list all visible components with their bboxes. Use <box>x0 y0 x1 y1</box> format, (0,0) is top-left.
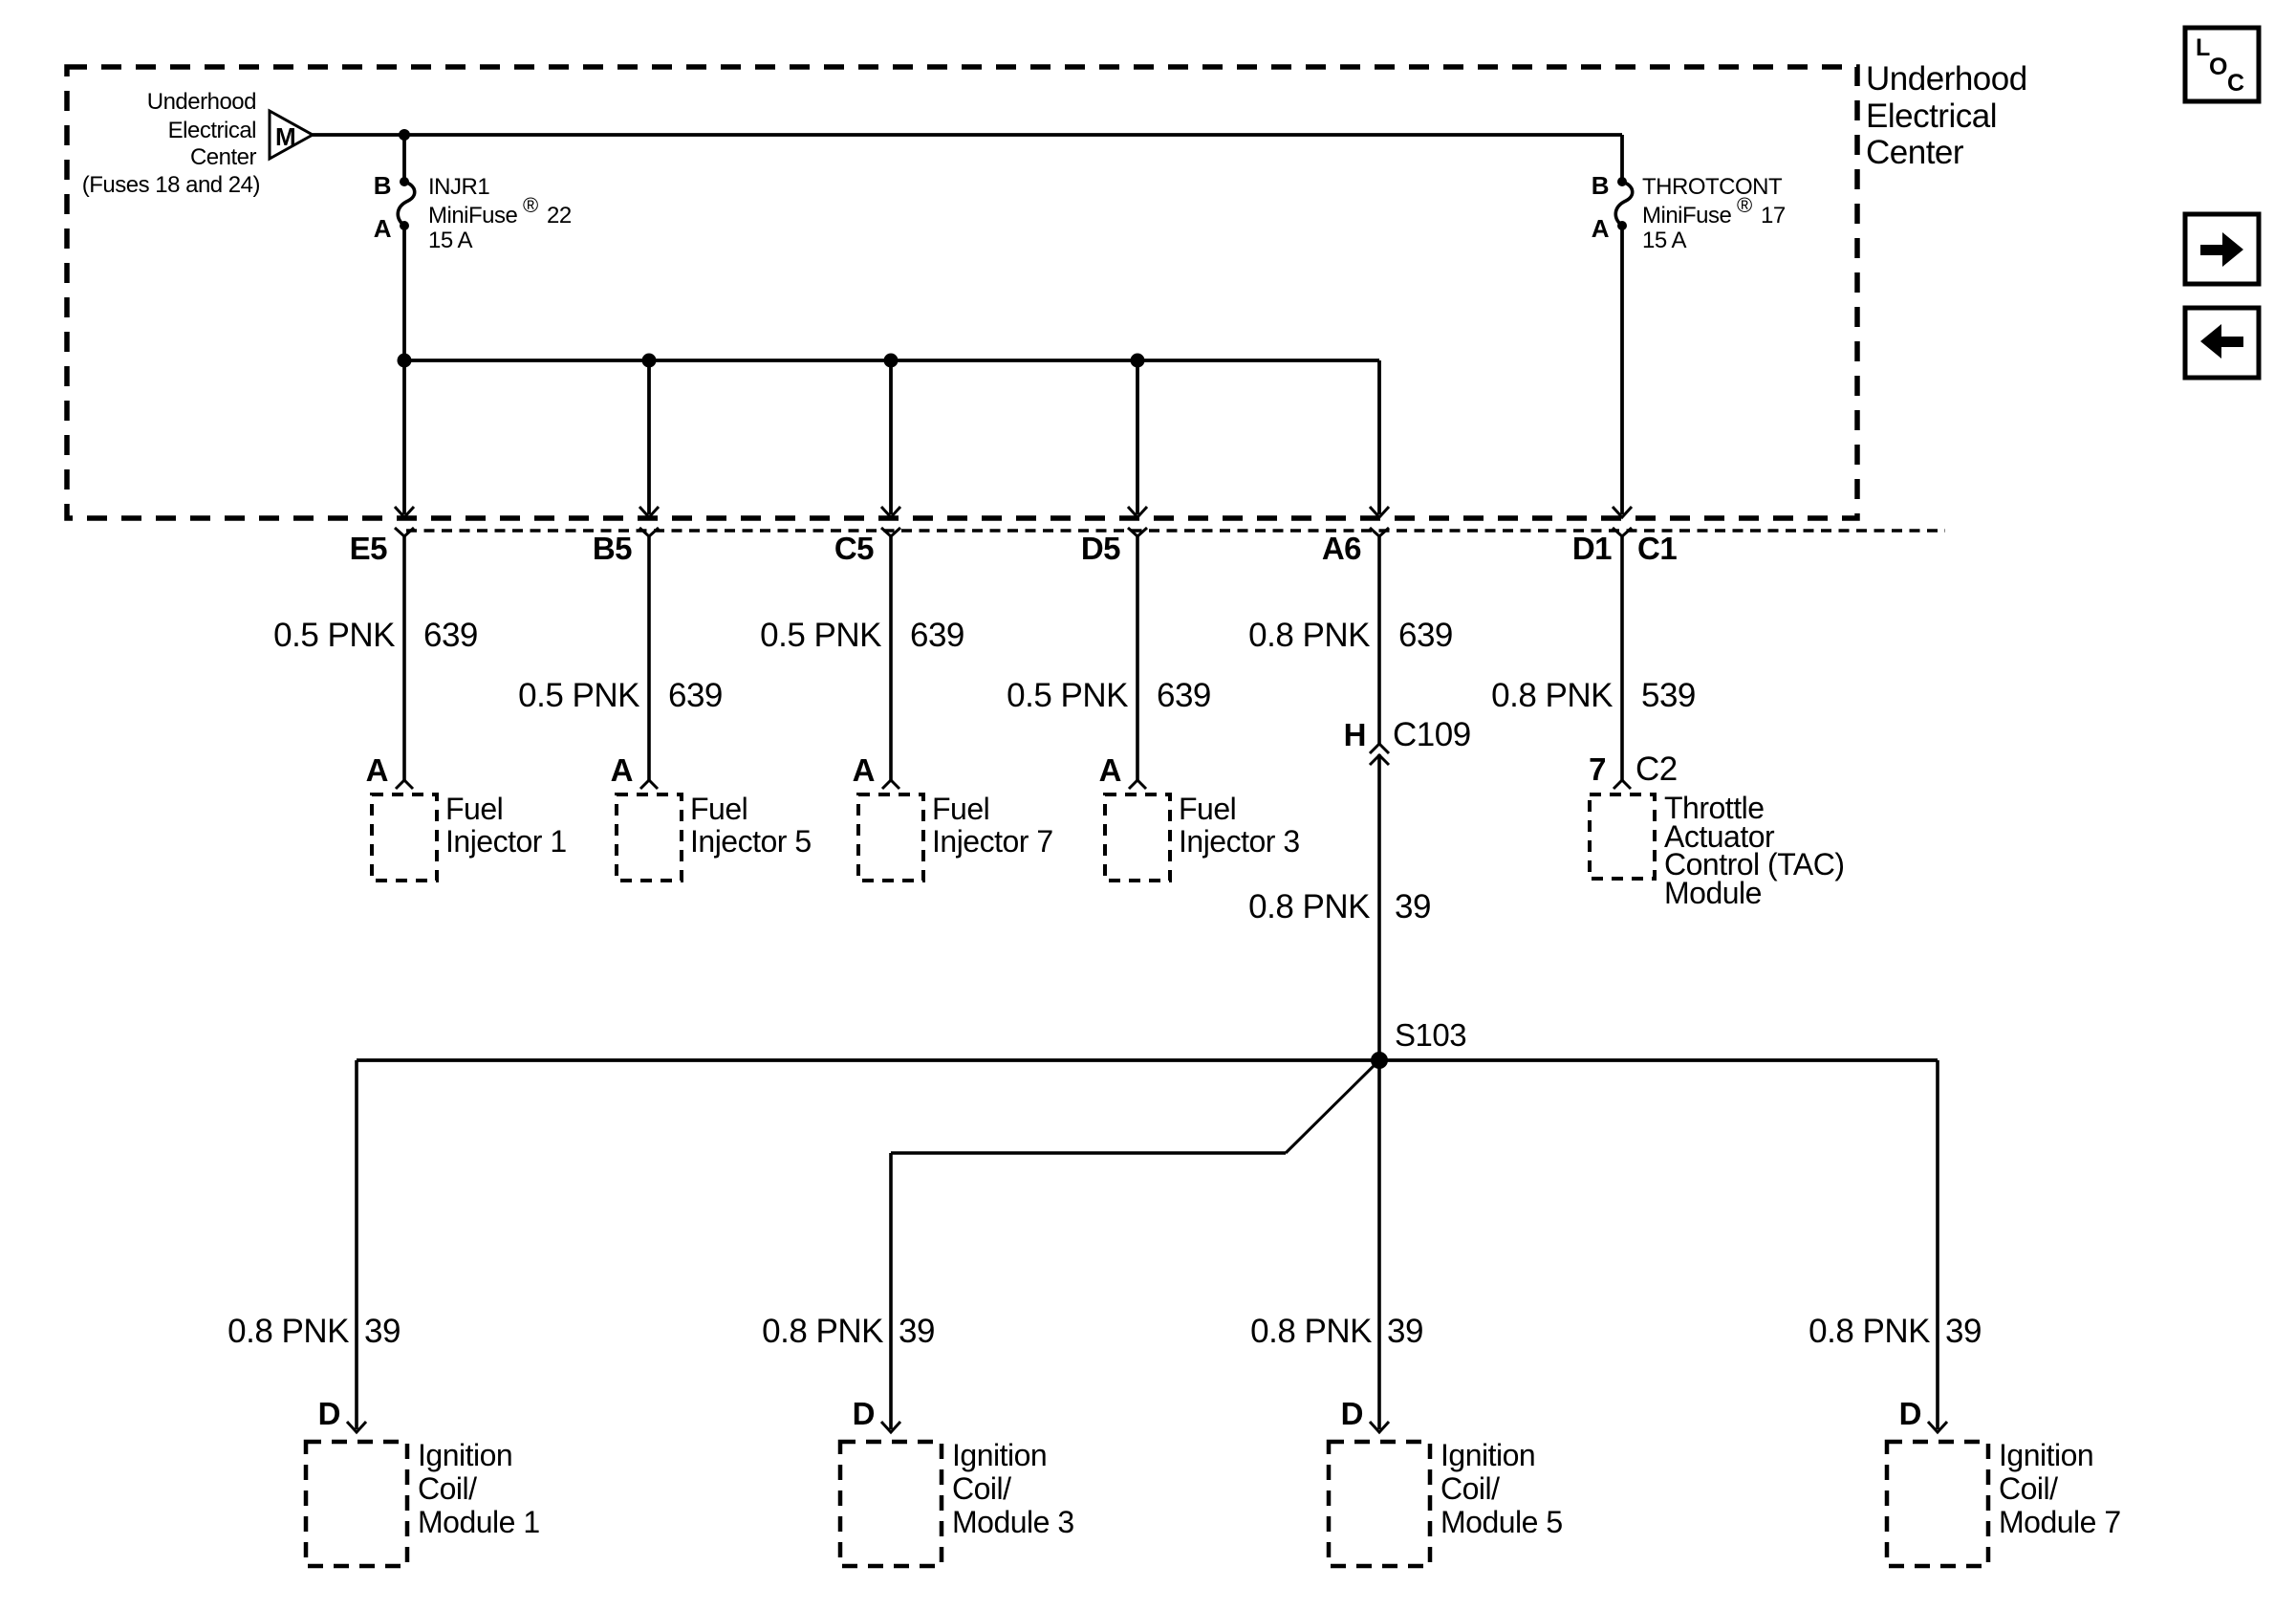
label Fuel Injector 1 <box>445 792 567 859</box>
svg-text:0.8 PNK: 0.8 PNK <box>1491 677 1613 714</box>
wire: connector D5 to fuel injector <box>1136 536 1139 780</box>
wire: bus drop to connector D5 with arrowhead <box>1128 360 1147 517</box>
svg-text:®: ® <box>523 193 538 217</box>
terminal fork pin A (Fuel Injector 1) <box>396 780 413 789</box>
wire label 0.8 PNK 39 (C109-S103) <box>1248 888 1431 925</box>
svg-text:Center: Center <box>1866 134 1964 171</box>
value label INJR1 MiniFuse 22 15 A <box>428 174 572 253</box>
arrowhead at connector D1 <box>1613 507 1632 517</box>
fuel injector 7 dashed box <box>858 794 923 881</box>
wire label 0.8 PNK 39 (coil 3) <box>762 1313 935 1350</box>
wire: diagonal branch from S103 <box>1286 1060 1379 1153</box>
svg-text:39: 39 <box>364 1313 401 1350</box>
svg-text:C2: C2 <box>1635 751 1678 788</box>
svg-text:C109: C109 <box>1393 716 1471 753</box>
label Fuel Injector 5 <box>690 792 812 859</box>
svg-text:O: O <box>2209 54 2227 80</box>
wire: connector C1 to TAC module <box>1620 536 1624 780</box>
fuse THROTCONT MiniFuse 17 15A <box>1615 177 1632 230</box>
splice S103 <box>1371 1052 1388 1069</box>
wire: connector B5 to fuel injector <box>647 536 651 780</box>
svg-text:Module 1: Module 1 <box>418 1505 540 1539</box>
wire: C109 to S103 <box>1377 754 1381 1060</box>
svg-text:Underhood: Underhood <box>147 89 256 115</box>
svg-text:Injector 3: Injector 3 <box>1179 824 1300 859</box>
junction dot bus / B5 branch <box>642 354 657 368</box>
svg-text:Injector 1: Injector 1 <box>445 824 567 859</box>
svg-text:539: 539 <box>1641 677 1696 714</box>
svg-text:17: 17 <box>1761 203 1786 228</box>
svg-text:Injector 5: Injector 5 <box>690 824 812 859</box>
svg-text:Ignition: Ignition <box>952 1438 1047 1472</box>
wire: drop to ignition coil 7 with arrowhead <box>1928 1060 1947 1432</box>
wire label 0.8 PNK 39 (coil 1) <box>227 1313 401 1350</box>
svg-text:639: 639 <box>423 617 478 654</box>
LOC reference box <box>2185 28 2259 101</box>
svg-text:D: D <box>1341 1396 1363 1431</box>
ignition coil 1 dashed box <box>306 1442 407 1566</box>
svg-text:0.8 PNK: 0.8 PNK <box>1248 617 1370 654</box>
svg-text:C5: C5 <box>834 531 874 566</box>
wire: connector D1 to C109 <box>1377 536 1381 745</box>
in-line connector strip (thin dashed) <box>406 529 1945 532</box>
svg-text:B: B <box>1592 171 1609 200</box>
svg-text:®: ® <box>1737 193 1752 217</box>
connector fork A6 <box>1370 528 1389 536</box>
fuse INJR1 MiniFuse 22 15A <box>398 177 414 230</box>
wire label 0.8 PNK 39 (coil 5) <box>1250 1313 1423 1350</box>
fuel injector 5 dashed box <box>617 794 682 881</box>
terminal fork pin A (Fuel Injector 7) <box>882 780 899 789</box>
svg-text:639: 639 <box>1157 677 1211 714</box>
svg-text:Ignition: Ignition <box>418 1438 512 1472</box>
svg-text:Coil/: Coil/ <box>952 1471 1011 1506</box>
wire: drop to ignition coil 3 with arrowhead <box>881 1153 900 1432</box>
svg-text:INJR1: INJR1 <box>428 174 489 200</box>
left-arrow navigation box <box>2185 308 2259 378</box>
label Ignition Coil/Module 3 <box>952 1438 1074 1539</box>
svg-text:D: D <box>1899 1396 1921 1431</box>
label Fuel Injector 3 <box>1179 792 1300 859</box>
svg-text:39: 39 <box>1945 1313 1982 1350</box>
svg-text:Electrical: Electrical <box>168 118 256 143</box>
connector fork C5 <box>881 528 900 536</box>
wire: branch to ignition coil 3 <box>891 1151 1286 1155</box>
label Underhood Electrical Center (left, at M) <box>82 89 260 198</box>
label Ignition Coil/Module 7 <box>1999 1438 2121 1539</box>
ignition coil 5 dashed box <box>1329 1442 1430 1566</box>
svg-text:0.8 PNK: 0.8 PNK <box>1248 888 1370 925</box>
connector fork B5 <box>639 528 659 536</box>
svg-text:22: 22 <box>547 203 572 228</box>
svg-text:639: 639 <box>1398 617 1453 654</box>
junction dot bus / C5 branch <box>884 354 899 368</box>
label Throttle Actuator Control (TAC) Module <box>1664 791 1844 910</box>
svg-text:C: C <box>2227 70 2244 97</box>
svg-text:D: D <box>318 1396 340 1431</box>
wire label 0.5 PNK 639 (B5) <box>518 677 723 714</box>
svg-text:15 A: 15 A <box>1642 228 1687 253</box>
svg-text:H: H <box>1344 717 1366 752</box>
svg-text:639: 639 <box>668 677 723 714</box>
svg-text:A: A <box>366 752 388 788</box>
svg-text:0.5 PNK: 0.5 PNK <box>518 677 639 714</box>
wire: connector C5 to fuel injector <box>889 536 893 780</box>
wire: bus drop to connector A6 with arrowhead <box>1370 360 1389 517</box>
wire: drop to ignition coil 1 with arrowhead <box>347 1060 366 1432</box>
power feed triangle M <box>270 111 313 159</box>
right-arrow navigation box <box>2185 214 2259 284</box>
svg-text:A: A <box>1099 752 1121 788</box>
connector C109 female fork <box>1370 744 1389 753</box>
svg-text:S103: S103 <box>1395 1017 1466 1053</box>
svg-text:0.5 PNK: 0.5 PNK <box>1007 677 1128 714</box>
svg-text:0.5 PNK: 0.5 PNK <box>273 617 395 654</box>
svg-text:M: M <box>275 122 295 151</box>
junction dot bus / D5 branch <box>1131 354 1145 368</box>
svg-text:Center: Center <box>190 144 257 170</box>
Underhood Electrical Center dashed enclosure <box>67 67 1857 518</box>
svg-text:7: 7 <box>1589 751 1606 787</box>
wire: bus drop to connector B5 with arrowhead <box>639 360 659 517</box>
svg-text:39: 39 <box>1395 888 1431 925</box>
junction dot at INJR1 tap <box>399 129 410 141</box>
wire label 0.5 PNK 639 (D5) <box>1007 677 1211 714</box>
wire: bus drop to connector E5 with arrowhead <box>395 360 414 517</box>
terminal fork pin A (Fuel Injector 3) <box>1129 780 1146 789</box>
connector fork E5 <box>395 528 414 536</box>
svg-text:639: 639 <box>910 617 964 654</box>
wire: injector feed bus <box>404 359 1379 362</box>
wire: M feed to THROTCONT fuse (horizontal) <box>313 133 1622 137</box>
svg-text:Fuel: Fuel <box>445 792 503 826</box>
junction dot bus / E5 branch <box>398 354 412 368</box>
svg-text:Injector 7: Injector 7 <box>932 824 1053 859</box>
svg-text:15 A: 15 A <box>428 228 473 253</box>
svg-text:Fuel: Fuel <box>1179 792 1236 826</box>
svg-text:E5: E5 <box>350 531 388 566</box>
svg-text:Coil/: Coil/ <box>418 1471 477 1506</box>
svg-text:Module: Module <box>1664 876 1762 910</box>
svg-text:A: A <box>853 752 875 788</box>
svg-text:A: A <box>374 214 392 243</box>
svg-text:A6: A6 <box>1322 531 1361 566</box>
wire: bus drop to connector C5 with arrowhead <box>881 360 900 517</box>
svg-text:Fuel: Fuel <box>932 792 989 826</box>
throttle actuator control module dashed box <box>1590 794 1655 879</box>
svg-text:0.5 PNK: 0.5 PNK <box>760 617 881 654</box>
svg-text:Fuel: Fuel <box>690 792 747 826</box>
wire: THROTCONT fuse A down to connector D1 <box>1620 226 1624 514</box>
label Ignition Coil/Module 1 <box>418 1438 540 1539</box>
svg-text:Ignition: Ignition <box>1440 1438 1535 1472</box>
svg-text:Module 3: Module 3 <box>952 1505 1074 1539</box>
wire: down to INJR1 fuse terminal B <box>402 135 406 182</box>
wire label 0.8 PNK 639 (A6) <box>1248 617 1453 654</box>
connector fork D5 <box>1128 528 1147 536</box>
label Underhood Electrical Center (right of box) <box>1866 60 2027 171</box>
ignition coil 3 dashed box <box>840 1442 942 1566</box>
svg-text:Module 5: Module 5 <box>1440 1505 1563 1539</box>
wire label 0.5 PNK 639 (E5) <box>273 617 478 654</box>
wire: drop to ignition coil 5 with arrowhead <box>1370 1060 1389 1432</box>
svg-text:Module 7: Module 7 <box>1999 1505 2121 1539</box>
svg-text:B5: B5 <box>593 531 632 566</box>
svg-text:0.8 PNK: 0.8 PNK <box>227 1313 349 1350</box>
wire: INJR1 fuse A to bus <box>402 226 406 360</box>
svg-text:D1: D1 <box>1572 531 1612 566</box>
connector fork D1/C1 <box>1613 528 1632 536</box>
svg-text:(Fuses 18 and 24): (Fuses 18 and 24) <box>82 172 260 198</box>
svg-text:A: A <box>611 752 633 788</box>
svg-text:0.8 PNK: 0.8 PNK <box>762 1313 883 1350</box>
svg-text:Coil/: Coil/ <box>1440 1471 1500 1506</box>
wire label 0.5 PNK 639 (C5) <box>760 617 964 654</box>
svg-text:Electrical: Electrical <box>1866 98 1997 135</box>
svg-text:0.8 PNK: 0.8 PNK <box>1250 1313 1372 1350</box>
fuel injector 3 dashed box <box>1105 794 1170 881</box>
svg-text:Underhood: Underhood <box>1866 60 2027 98</box>
wire: down to THROTCONT fuse terminal B <box>1620 135 1624 182</box>
svg-text:B: B <box>374 171 391 200</box>
svg-text:MiniFuse: MiniFuse <box>1642 203 1732 228</box>
wire: connector E5 to fuel injector <box>402 536 406 780</box>
wire: S103 distribution bus <box>357 1058 1938 1062</box>
wire label 0.8 PNK 39 (coil 7) <box>1809 1313 1982 1350</box>
fuel injector 1 dashed box <box>372 794 437 881</box>
svg-text:0.8 PNK: 0.8 PNK <box>1809 1313 1930 1350</box>
svg-text:L: L <box>2196 34 2210 61</box>
connector C109 male arrow <box>1370 755 1389 765</box>
svg-text:MiniFuse: MiniFuse <box>428 203 518 228</box>
svg-text:A: A <box>1592 214 1610 243</box>
terminal fork pin A (Fuel Injector 5) <box>640 780 658 789</box>
svg-text:THROTCONT: THROTCONT <box>1642 174 1783 200</box>
wire label 0.8 PNK 539 (C1) <box>1491 677 1696 714</box>
terminal fork pin 7 C2 (TAC) <box>1614 780 1631 789</box>
label Ignition Coil/Module 5 <box>1440 1438 1563 1539</box>
svg-text:39: 39 <box>1387 1313 1423 1350</box>
svg-text:D5: D5 <box>1081 531 1120 566</box>
svg-text:D: D <box>853 1396 875 1431</box>
svg-text:Ignition: Ignition <box>1999 1438 2093 1472</box>
svg-text:39: 39 <box>899 1313 935 1350</box>
value label THROTCONT MiniFuse 17 15 A <box>1642 174 1786 253</box>
label Fuel Injector 7 <box>932 792 1053 859</box>
ignition coil 7 dashed box <box>1887 1442 1988 1566</box>
svg-text:Coil/: Coil/ <box>1999 1471 2058 1506</box>
svg-text:C1: C1 <box>1637 531 1677 566</box>
